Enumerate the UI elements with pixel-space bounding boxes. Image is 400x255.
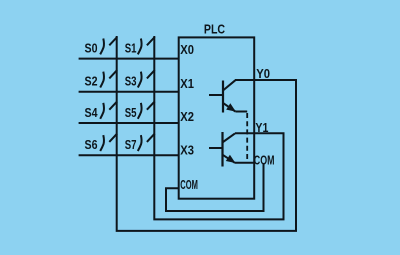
PLC box U1 [179,37,255,198]
svg-text:COM: COM [254,152,275,167]
svg-text:Y0: Y0 [256,66,270,81]
switch S4 [100,101,117,118]
svg-text:S3: S3 [125,74,137,89]
svg-text:X0: X0 [180,42,194,57]
transistor Q2 [209,132,235,167]
switch S2 [100,70,117,87]
svg-text:S7: S7 [125,137,137,152]
svg-text:Y1: Y1 [255,120,268,135]
switch S3 [138,70,155,87]
svg-text:S5: S5 [125,105,137,120]
switch S0 [100,37,117,54]
wire COM output [235,162,254,164]
wire row X2 [79,122,179,124]
switch S7 [138,134,155,151]
svg-text:X3: X3 [180,142,194,157]
svg-text:COM: COM [180,177,198,192]
svg-text:S0: S0 [85,41,98,56]
svg-text:S6: S6 [85,137,98,152]
svg-text:PLC: PLC [204,22,225,37]
wire column 2 to Y1 [154,36,283,219]
svg-text:S4: S4 [85,105,99,120]
switch S1 [138,37,155,54]
switch S5 [138,101,155,118]
dashed internal common wire [246,113,248,163]
switch S6 [100,134,117,151]
transistor Q1 [209,80,247,112]
wire row X3 [79,154,179,156]
svg-text:S2: S2 [85,74,98,89]
svg-text:X1: X1 [180,76,194,91]
svg-text:S1: S1 [125,41,137,56]
svg-text:X2: X2 [180,109,194,124]
wire COM link [166,164,264,211]
wire column 1 to Y0 [117,36,296,231]
wire row X0 [79,58,179,60]
wire row X1 [79,91,179,93]
